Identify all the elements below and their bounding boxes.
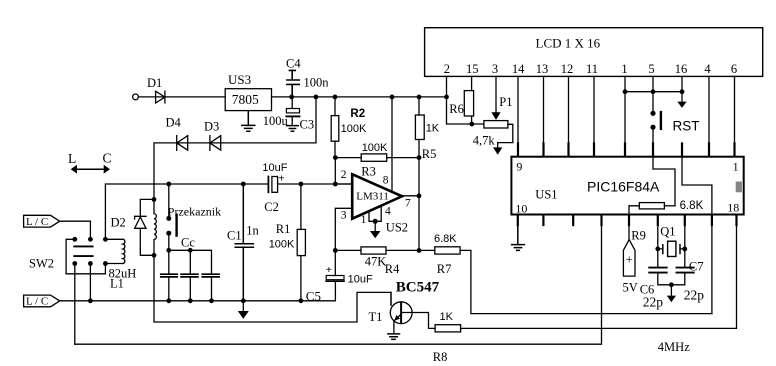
wire SW2 left pole down to long rail — [74, 264, 76, 345]
svg-text:L: L — [68, 151, 76, 166]
wire under C6 C7 — [658, 274, 685, 296]
svg-text:6: 6 — [731, 62, 737, 76]
capacitor Cc 1 — [161, 274, 177, 277]
svg-text:T1: T1 — [369, 310, 383, 324]
svg-text:5: 5 — [648, 62, 654, 76]
svg-text:P1: P1 — [499, 95, 512, 109]
svg-text:R2: R2 — [350, 108, 365, 120]
svg-text:R6: R6 — [449, 102, 464, 116]
wire D4 D3 row — [154, 97, 316, 199]
pin1 gray marker — [736, 182, 742, 193]
ground under C3 — [287, 126, 299, 132]
svg-text:5V: 5V — [623, 281, 638, 295]
relay coil — [154, 199, 156, 255]
resistor R3 — [335, 157, 419, 159]
diode D4 — [177, 136, 188, 151]
svg-text:C: C — [103, 151, 112, 166]
svg-text:C4: C4 — [286, 57, 301, 71]
resistor R7 6.8K — [460, 250, 712, 313]
resistor R2 — [334, 97, 336, 158]
capacitor C1 — [235, 184, 253, 301]
wire R3 feedback to pin2 — [334, 158, 336, 184]
capacitor C4 — [287, 70, 299, 97]
svg-text:C5: C5 — [306, 288, 321, 303]
wire T1 base path from relay node — [154, 255, 391, 322]
svg-text:6.8K: 6.8K — [434, 233, 457, 245]
svg-text:100u: 100u — [263, 114, 289, 128]
P1 right lead to ground arrow — [498, 124, 513, 147]
arrowhead T1 emitter — [394, 315, 400, 321]
ground arrow below C1 — [242, 301, 244, 311]
svg-text:100K: 100K — [341, 123, 367, 135]
PIC top pin stubs — [518, 144, 737, 226]
junction dots opamp section — [289, 95, 449, 253]
svg-text:R3: R3 — [361, 165, 376, 179]
svg-text:4,7k: 4,7k — [473, 134, 496, 148]
arrowhead left — [71, 165, 77, 174]
svg-text:RST: RST — [673, 119, 700, 134]
ground under PIC pin10 — [512, 225, 525, 250]
arrowhead P1 wiper — [491, 112, 500, 120]
relay contact Przekaznik — [168, 184, 170, 250]
arrowhead ground XTAL — [667, 296, 676, 303]
wire input to US3 — [139, 96, 226, 98]
svg-text:4: 4 — [385, 206, 391, 218]
potentiometer P1 body — [484, 121, 508, 128]
svg-text:8: 8 — [383, 175, 389, 187]
ground under T1 — [388, 334, 400, 340]
svg-text:100K: 100K — [362, 142, 388, 154]
capacitor C3 — [291, 97, 293, 125]
wire R8 to PIC — [461, 225, 737, 328]
wire long bottom rail — [75, 225, 602, 344]
PIC internal wire to pin RB — [682, 157, 712, 314]
svg-text:L1: L1 — [110, 277, 124, 291]
svg-text:9: 9 — [516, 159, 522, 173]
svg-text:SW2: SW2 — [29, 257, 54, 271]
svg-text:C3: C3 — [300, 117, 315, 131]
svg-text:4MHz: 4MHz — [658, 340, 690, 354]
svg-text:3: 3 — [341, 209, 347, 221]
arrowhead P1 ground — [493, 147, 502, 154]
svg-text:R7: R7 — [437, 262, 452, 276]
svg-text:4: 4 — [704, 62, 711, 76]
switch SW2 contact bars — [74, 246, 92, 256]
resistor R9 6.8K internal — [639, 203, 664, 209]
wire bottom rail — [60, 282, 336, 301]
svg-text:+: + — [326, 264, 332, 276]
wire SW2 mid pole down — [89, 264, 91, 301]
svg-text:LM311: LM311 — [356, 191, 389, 203]
svg-text:1K: 1K — [426, 122, 440, 134]
wire RST rail — [625, 91, 682, 93]
svg-text:R1: R1 — [276, 222, 291, 236]
svg-text:1: 1 — [621, 62, 627, 76]
junction dots right section — [655, 247, 687, 288]
svg-text:14: 14 — [512, 62, 525, 76]
svg-text:L / C: L / C — [26, 216, 48, 228]
wire pin7 — [402, 195, 419, 197]
switch SW2 bracket — [66, 239, 105, 273]
L C range arrow — [75, 168, 106, 170]
svg-text:100K: 100K — [269, 238, 295, 250]
svg-text:Przekaznik: Przekaznik — [168, 205, 221, 219]
svg-text:C1: C1 — [227, 229, 242, 243]
svg-text:LCD 1 X 16: LCD 1 X 16 — [536, 35, 601, 50]
svg-text:Q1: Q1 — [660, 224, 675, 238]
diode D2 zener — [135, 216, 154, 255]
wire pin8 — [391, 97, 393, 190]
svg-text:16: 16 — [675, 62, 688, 76]
crystal Q1 leads — [658, 225, 685, 267]
svg-text:US1: US1 — [535, 188, 557, 202]
svg-text:+: + — [626, 252, 633, 267]
svg-text:R4: R4 — [385, 262, 400, 276]
svg-text:Cc: Cc — [181, 236, 195, 250]
svg-text:3: 3 — [492, 62, 498, 76]
svg-text:BC547: BC547 — [396, 280, 440, 296]
regulator US3 7805 — [225, 89, 271, 111]
svg-text:1: 1 — [361, 214, 367, 226]
PIC bottom pin stubs — [518, 215, 737, 225]
svg-text:D2: D2 — [111, 216, 126, 230]
wire y184 oscillator node — [105, 184, 352, 239]
svg-text:47K: 47K — [365, 255, 387, 269]
svg-text:+: + — [278, 173, 284, 185]
svg-text:R9: R9 — [631, 229, 646, 243]
op-amp pin1 pin4 stubs — [369, 206, 381, 231]
capacitor C5 10uF — [334, 250, 336, 275]
inductor L1 coil — [123, 239, 125, 263]
junction dots LCD section — [469, 89, 684, 130]
arrowhead LCD pin16 ground — [677, 102, 686, 108]
battery 5V supply — [628, 225, 630, 240]
capacitor C6 — [649, 268, 667, 273]
svg-text:L / C: L / C — [26, 296, 48, 308]
svg-text:D1: D1 — [147, 76, 162, 90]
svg-text:PIC16F84A: PIC16F84A — [587, 178, 660, 194]
wire pin2 from C2 — [335, 183, 352, 185]
capacitor C7 — [677, 268, 694, 273]
svg-text:D3: D3 — [204, 119, 219, 133]
svg-text:22p: 22p — [643, 295, 664, 310]
wire D2 branch top — [140, 199, 154, 216]
svg-text:10: 10 — [515, 201, 527, 215]
PIC internal wire to R9 resistor — [629, 157, 675, 225]
wire 5V rail — [272, 96, 447, 98]
resistor R1 — [300, 184, 302, 301]
resistor R8 1K — [435, 325, 461, 332]
svg-text:2: 2 — [444, 62, 450, 76]
ground under US3 — [242, 111, 255, 132]
junction dots left section — [72, 182, 303, 304]
IC US1 PIC16F84A box — [511, 157, 743, 215]
LCD pin wires — [447, 76, 484, 124]
resistor R6 — [464, 91, 473, 116]
svg-text:11: 11 — [586, 62, 598, 76]
svg-text:US2: US2 — [386, 221, 408, 235]
LCD module box — [425, 28, 763, 77]
svg-text:22p: 22p — [684, 288, 705, 303]
svg-text:18: 18 — [727, 200, 739, 214]
inductor L1 leads — [105, 239, 123, 263]
wire Cc rail — [169, 250, 212, 273]
svg-text:12: 12 — [561, 62, 574, 76]
transistor T1 emitter — [394, 314, 401, 332]
svg-text:7805: 7805 — [232, 92, 259, 107]
arrowhead ground C1 — [238, 311, 249, 319]
svg-text:R5: R5 — [422, 147, 437, 161]
arrowhead right — [104, 165, 110, 174]
svg-text:100n: 100n — [304, 76, 330, 90]
svg-text:R8: R8 — [433, 350, 448, 364]
svg-text:7: 7 — [405, 198, 411, 210]
svg-text:15: 15 — [466, 62, 479, 76]
crystal Q1 body — [668, 241, 676, 256]
connector L/C top — [24, 215, 60, 227]
transistor T1 body — [390, 302, 412, 324]
svg-text:10uF: 10uF — [348, 274, 373, 286]
svg-text:1K: 1K — [440, 311, 454, 323]
op-amp US2 LM311 — [352, 174, 402, 219]
svg-text:US3: US3 — [228, 72, 251, 87]
capacitor Cc 2 — [181, 274, 198, 277]
svg-text:13: 13 — [536, 62, 549, 76]
wires Cc to bottom rail — [169, 278, 212, 301]
svg-text:1: 1 — [733, 159, 739, 173]
arrowhead ground US2 — [370, 231, 381, 238]
capacitor C2 10uF — [267, 177, 269, 193]
svg-text:6.8K: 6.8K — [680, 200, 704, 212]
svg-text:D4: D4 — [166, 116, 182, 130]
svg-text:C7: C7 — [689, 260, 704, 274]
transistor T1 collector — [401, 313, 435, 329]
connector L/C bottom — [24, 295, 60, 307]
svg-text:2: 2 — [341, 169, 347, 181]
wire L/C top to SW2 — [60, 221, 91, 239]
switch RST bar — [660, 112, 662, 129]
input terminal — [133, 94, 139, 100]
resistor R5 — [418, 97, 420, 251]
svg-text:1n: 1n — [246, 224, 259, 238]
diode D1 — [156, 91, 165, 103]
diode D3 — [210, 136, 221, 151]
wire pin3 — [335, 208, 352, 250]
transistor T1 base lead — [390, 292, 392, 305]
capacitor Cc 3 — [202, 274, 219, 277]
svg-text:C2: C2 — [264, 200, 279, 214]
resistor R4 47K row — [335, 249, 435, 251]
